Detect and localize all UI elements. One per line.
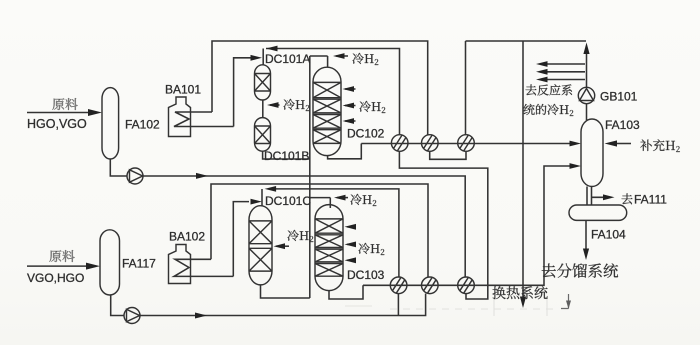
- wire manifold to DC103 top: [310, 198, 331, 208]
- label cold H2 DC103 side: [359, 243, 385, 255]
- label feed2 原料: [50, 250, 75, 262]
- wire FA102 bottom to pump P1: [110, 159, 127, 176]
- label 去分馏系统: [542, 263, 618, 277]
- wire DC101C bottom to manifold: [261, 285, 310, 298]
- exchanger E1 top row: [391, 135, 408, 152]
- wire GB101 riser: [586, 52, 588, 88]
- furnace BA101: [169, 97, 191, 137]
- svg-text:DC102: DC102: [347, 127, 385, 141]
- svg-text:FA102: FA102: [125, 118, 160, 132]
- arrowhead pump P1 discharge: [196, 173, 208, 179]
- wire pump P2 discharge line: [140, 294, 426, 316]
- exchanger E3 top row: [458, 135, 475, 152]
- wire DC103 side cold H2 stub2: [347, 243, 356, 245]
- arrowhead feed into FA102: [88, 109, 102, 116]
- wire top E1 top up and left to DC101A inlet: [266, 49, 400, 135]
- arrowhead cold H2 DC103 side1: [345, 224, 357, 230]
- svg-text:DC101B: DC101B: [264, 149, 309, 163]
- reactor DC101B: [255, 118, 271, 152]
- wire BA101 feed header: [212, 41, 428, 135]
- svg-text:DC103: DC103: [347, 268, 385, 282]
- wire BA102 coil inlet: [174, 259, 233, 276]
- arrowhead pump P2 discharge: [195, 313, 207, 319]
- vessel FA104: [569, 205, 627, 220]
- exchanger E5 bottom row: [422, 277, 439, 294]
- vessel FA102: [102, 88, 119, 159]
- compressor GB101: [578, 87, 594, 103]
- arrowhead cold H2 DC101C side: [274, 243, 286, 249]
- label cold H2 DC102 top: [353, 53, 379, 65]
- arrowhead recycle into DC101A top (left): [266, 46, 278, 52]
- wire recycle gas header: [466, 40, 587, 42]
- wire top exchanger row line to FA103: [361, 143, 570, 145]
- arrowhead top exchanger line into FA103: [570, 141, 582, 147]
- wire feed line to FA117: [27, 265, 90, 267]
- wire make-up H2 into FA103: [616, 143, 631, 145]
- arrowhead heat-exchange branch down: [520, 297, 526, 309]
- svg-text:FA117: FA117: [122, 257, 156, 271]
- arrowhead cold H2 DC102 side1: [343, 86, 355, 92]
- wire heat-exchange-system branch: [522, 41, 524, 297]
- vessel FA103: [581, 119, 603, 187]
- arrowhead cold H2 DC102 side2: [343, 103, 355, 109]
- label 去反应系: [526, 84, 572, 95]
- reactor DC102: [313, 67, 341, 155]
- wire DC101C side cold H2 stub: [276, 245, 289, 247]
- arrowhead cold H2 DC102 side3: [343, 118, 355, 124]
- svg-text:FA103: FA103: [605, 118, 640, 132]
- arrowhead into DC101A from furnace: [251, 55, 263, 61]
- label cold H2 DC101C side: [288, 230, 314, 242]
- exchanger E6 bottom row: [458, 277, 475, 294]
- wire cold H2 stub arrow1 to reaction system: [547, 63, 585, 65]
- svg-text:GB101: GB101: [600, 90, 638, 104]
- wire cold H2 stub between DC101A and DC101B: [270, 104, 280, 106]
- arrowhead cold H2 DC103 top: [334, 195, 346, 201]
- wire bottom E3 bottom loop to top E1 bottom: [399, 152, 487, 299]
- wire pump P1 discharge to bottom exchanger E3 top: [143, 176, 465, 277]
- wire FA103 bottom neck right: [592, 187, 604, 206]
- wire DC102 side cold H2 stub2: [345, 105, 356, 107]
- arrowhead make-up H2 into FA103: [605, 140, 618, 146]
- wire BA102 outlet riser to DC101C: [233, 202, 249, 277]
- label 补充H2: [640, 139, 680, 152]
- wire top E2-E3 bottom loop: [430, 152, 466, 160]
- arrowhead cold H2 to reaction sys 3: [536, 77, 548, 83]
- wire bottom exchanger row line to FA103: [363, 166, 570, 285]
- arrowhead to FA111: [603, 194, 615, 200]
- reactor DC101A: [255, 65, 271, 100]
- label cold H2 DC103 top: [351, 194, 377, 206]
- svg-text:DC101A: DC101A: [265, 52, 310, 66]
- svg-text:BA101: BA101: [165, 83, 201, 97]
- wire DC103 side cold H2 stub1: [347, 226, 356, 228]
- wire DC102 side cold H2 stub1: [345, 88, 356, 90]
- arrowhead cold H2 DC103 side3: [345, 257, 357, 263]
- wire vertical manifold: [309, 56, 311, 298]
- arrowhead FA104 to fractionation: [583, 249, 589, 261]
- label 去FA111: [622, 193, 633, 204]
- wire DC103 bottom jog: [329, 285, 363, 299]
- svg-text:HGO,VGO: HGO,VGO: [27, 117, 87, 131]
- reactor DC101C: [249, 206, 272, 285]
- wire cold H2 stub arrow2 to reaction system: [547, 71, 585, 73]
- furnace BA102: [169, 245, 191, 284]
- wire DC101C top stub: [261, 189, 263, 206]
- arrowhead cold H2 between DC101A/B: [267, 102, 279, 108]
- label feed1 原料: [53, 98, 78, 110]
- wire DC101A to DC101B: [262, 100, 264, 118]
- svg-text:FA111: FA111: [634, 193, 667, 207]
- arrowhead cold H2 to reaction sys 1: [536, 61, 548, 67]
- arrowhead bottom exchanger line into FA103: [570, 163, 582, 169]
- wire BA101 outlet riser to DC101A: [234, 58, 251, 127]
- wire DC102 bottom jog to top exchanger row: [328, 144, 362, 159]
- wire DC102 side cold H2 stub3: [345, 120, 356, 122]
- wire cold H2 stub at DC103 top: [337, 197, 348, 199]
- exchanger E2 top row: [422, 135, 439, 152]
- arrowhead feed into FA117: [86, 263, 100, 270]
- exchanger E4 bottom row: [390, 277, 407, 294]
- wire bottom E2 top to BA102: [211, 184, 428, 277]
- svg-text:DC101C: DC101C: [265, 194, 311, 208]
- arrowhead recycle into DC101C top (left): [265, 186, 277, 192]
- svg-text:BA102: BA102: [169, 230, 205, 244]
- pump P2: [124, 308, 140, 324]
- wire bottom E1 bottom to pump line: [397, 294, 399, 316]
- wire DC101B bottom to manifold: [263, 151, 310, 159]
- wire DC101A top stub: [262, 49, 264, 65]
- arrowhead cold H2 to reaction sys 2: [536, 69, 548, 75]
- label 统的冷H2: [524, 104, 574, 116]
- wire FA117 bottom to pump P2: [111, 295, 124, 316]
- svg-text:FA104: FA104: [591, 228, 626, 242]
- arrowhead into DC101C from furnace: [251, 199, 263, 205]
- wire cold H2 stub at DC102 top: [336, 55, 348, 57]
- wire BA101 coil inlet: [174, 112, 234, 127]
- wire top E3 top: [465, 41, 467, 135]
- scan remnant arrow bottom right: [561, 294, 569, 309]
- pump P1: [127, 168, 143, 184]
- wire feed line to FA102: [27, 112, 90, 114]
- wire DC103 side cold H2 stub3: [347, 259, 356, 261]
- scan noise faint dashes: [390, 308, 555, 310]
- arrowhead cold H2 DC103 side2: [345, 242, 357, 248]
- arrowhead GB101 discharge up: [583, 43, 589, 55]
- label cold H2 DC102 side: [360, 101, 386, 113]
- svg-text:VGO,HGO: VGO,HGO: [27, 271, 84, 285]
- wire FA103 bottom neck left: [586, 187, 588, 206]
- wire cold H2 stub arrow3 to reaction system: [547, 79, 585, 81]
- label cold H2 at DC101A/B: [284, 99, 310, 111]
- label 换热系统: [493, 286, 548, 299]
- arrowhead cold H2 DC102 top: [333, 53, 345, 59]
- wire FA104 bottom outlet: [585, 221, 587, 250]
- wire manifold to DC102 top: [310, 56, 328, 67]
- wire GB101 suction from FA103 top: [586, 104, 588, 121]
- reactor DC103: [315, 205, 343, 291]
- wire recycle to DC101C from bottom E1: [276, 189, 399, 277]
- vessel FA117: [100, 230, 120, 295]
